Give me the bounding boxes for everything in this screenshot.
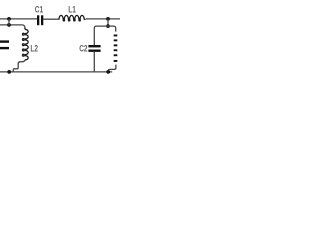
capacitor C1 right plate <box>41 15 43 25</box>
wire stub joining dots <box>8 19 10 25</box>
inductor L2 coil <box>23 28 29 60</box>
node ground junction dot left <box>7 70 11 74</box>
node input junction dot lower <box>7 23 11 27</box>
node input junction dot top <box>7 17 11 21</box>
wire right rail with corners and C2 top lead <box>94 26 115 45</box>
inductor (cut off at right edge) dash 3 <box>114 44 118 46</box>
capacitor plate (cut off at left edge) lower bar <box>0 47 9 49</box>
inductor (cut off at right edge) dash 5 <box>114 54 118 56</box>
wire left lower rail <box>0 25 25 29</box>
svg-text:C2: C2 <box>79 44 88 54</box>
node ground junction dot right <box>106 70 110 74</box>
node output junction dot lower <box>106 24 110 28</box>
svg-text:L2: L2 <box>30 43 38 53</box>
svg-text:L1: L1 <box>68 5 76 15</box>
wire right element bottom lead jog <box>108 65 116 72</box>
capacitor plate (cut off at left edge) upper bar <box>0 40 9 42</box>
inductor (cut off at right edge) dash 1 <box>114 35 118 37</box>
wire L2 bottom lead jog <box>13 60 25 72</box>
inductor L1 coil <box>59 15 86 20</box>
inductor (cut off at right edge) dash 4 <box>114 49 118 51</box>
capacitor C2 upper plate <box>88 45 100 47</box>
inductor (cut off at right edge) dash 6 <box>114 60 118 62</box>
wire between C1 and L1 <box>43 18 59 20</box>
capacitor C1 left plate <box>37 15 39 25</box>
wire top left segment <box>0 18 37 20</box>
wire C2 bottom lead <box>93 52 95 72</box>
inductor (cut off at right edge) dash 2 <box>114 39 118 41</box>
wire top right segment <box>86 18 120 20</box>
svg-text:C1: C1 <box>35 4 44 14</box>
capacitor C2 lower plate <box>88 50 100 52</box>
wire stub joining right dots <box>107 19 109 26</box>
wire bottom <box>0 71 112 73</box>
node output junction dot top <box>106 17 110 21</box>
